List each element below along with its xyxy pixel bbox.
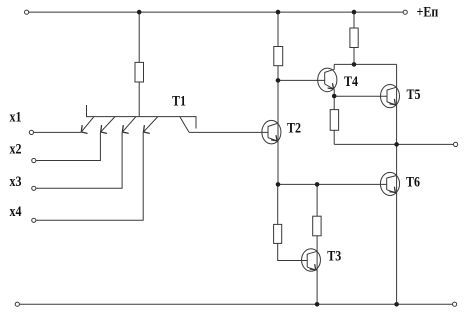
svg-text:x2: x2 <box>10 140 22 156</box>
svg-text:x1: x1 <box>10 108 22 124</box>
svg-text:T4: T4 <box>344 73 358 89</box>
svg-text:+Еп: +Еп <box>417 3 439 19</box>
svg-text:x4: x4 <box>10 203 22 219</box>
svg-text:T5: T5 <box>407 86 421 102</box>
svg-text:T6: T6 <box>406 173 420 189</box>
svg-text:T3: T3 <box>327 248 341 264</box>
svg-text:T2: T2 <box>287 120 301 136</box>
svg-text:x3: x3 <box>10 173 22 189</box>
svg-text:T1: T1 <box>172 92 186 108</box>
